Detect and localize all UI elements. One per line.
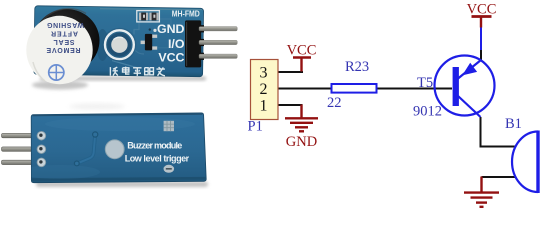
buzzer cylinder (black) xyxy=(34,9,100,72)
back PCB board xyxy=(31,113,206,183)
SMD resistor pair with silkscreen box xyxy=(137,11,160,22)
svg-text:GND: GND xyxy=(286,134,317,150)
svg-text:3: 3 xyxy=(260,65,268,82)
SMD transistor xyxy=(141,41,146,45)
svg-text:2: 2 xyxy=(260,81,268,98)
light mottling xyxy=(20,117,195,179)
svg-text:T5: T5 xyxy=(417,75,433,91)
svg-text:Low level trigger: Low level trigger xyxy=(125,153,190,163)
smd pad square (back, top right) xyxy=(164,121,174,131)
svg-text:9012: 9012 xyxy=(413,104,442,120)
photo: buzzer module back view xyxy=(2,113,209,187)
svg-text:GND: GND xyxy=(157,22,185,36)
solder blob (back, bottom right) xyxy=(164,165,175,173)
photo: buzzer module front view xyxy=(26,6,237,90)
wire buzzer bottom to ground xyxy=(482,176,517,178)
buzzer white label xyxy=(26,16,92,84)
copper trace (back) xyxy=(74,132,97,166)
wire pin3 to VCC stem xyxy=(278,71,303,73)
svg-text:AFTER: AFTER xyxy=(51,29,78,36)
svg-text:VCC: VCC xyxy=(158,51,184,65)
shadow under front board xyxy=(40,77,206,81)
svg-text:VCC: VCC xyxy=(467,2,497,18)
power VCC (top, at T5 emitter) xyxy=(467,2,497,28)
wire pin2 to resistor R23 xyxy=(278,88,331,90)
wire transistor emitter up (black segment) xyxy=(480,50,482,61)
front PCB board xyxy=(34,6,204,77)
big via pad (back) xyxy=(105,140,124,159)
faint shadow between modules xyxy=(69,104,125,110)
svg-text:1: 1 xyxy=(260,98,268,115)
resistor R23 xyxy=(327,59,377,111)
shadow under back board xyxy=(36,182,208,188)
faint traces front xyxy=(134,23,139,35)
faint silkscreen line top edge xyxy=(100,8,202,11)
svg-text:REMOVE: REMOVE xyxy=(46,46,80,53)
connector P1 xyxy=(248,60,279,135)
ground GND (under P1 pin 1) xyxy=(285,105,318,151)
svg-text:P1: P1 xyxy=(248,119,263,135)
svg-text:SEAL: SEAL xyxy=(53,38,75,45)
transistor T5 (PNP 9012) xyxy=(413,56,495,120)
wire pin1 to GND corner xyxy=(278,104,303,106)
back module pins (left) xyxy=(2,133,33,137)
solder pads (back) xyxy=(37,131,46,166)
wire resistor to transistor base xyxy=(377,88,453,90)
power VCC (left, at P1 pin 3) xyxy=(287,43,317,72)
wire emitter (blue segment) xyxy=(480,28,482,51)
svg-text:I/O: I/O xyxy=(168,37,185,51)
header pins (right side) xyxy=(199,27,237,59)
buzzer B1 xyxy=(505,116,538,193)
wire transistor collector down and right to buzzer xyxy=(481,117,517,147)
svg-text:MH-FMD: MH-FMD xyxy=(172,9,200,18)
svg-text:R23: R23 xyxy=(345,59,369,75)
svg-text:B1: B1 xyxy=(505,116,522,132)
ground (under buzzer B1) xyxy=(464,177,499,207)
svg-text:22: 22 xyxy=(327,95,342,111)
svg-text:Buzzer module: Buzzer module xyxy=(127,140,182,150)
silkscreen chinese text (low level trigger) xyxy=(110,67,165,76)
svg-text:VCC: VCC xyxy=(287,43,317,59)
pin header block xyxy=(185,20,201,67)
svg-text:WASHING: WASHING xyxy=(46,21,84,28)
mounting hole (front) xyxy=(108,33,132,57)
